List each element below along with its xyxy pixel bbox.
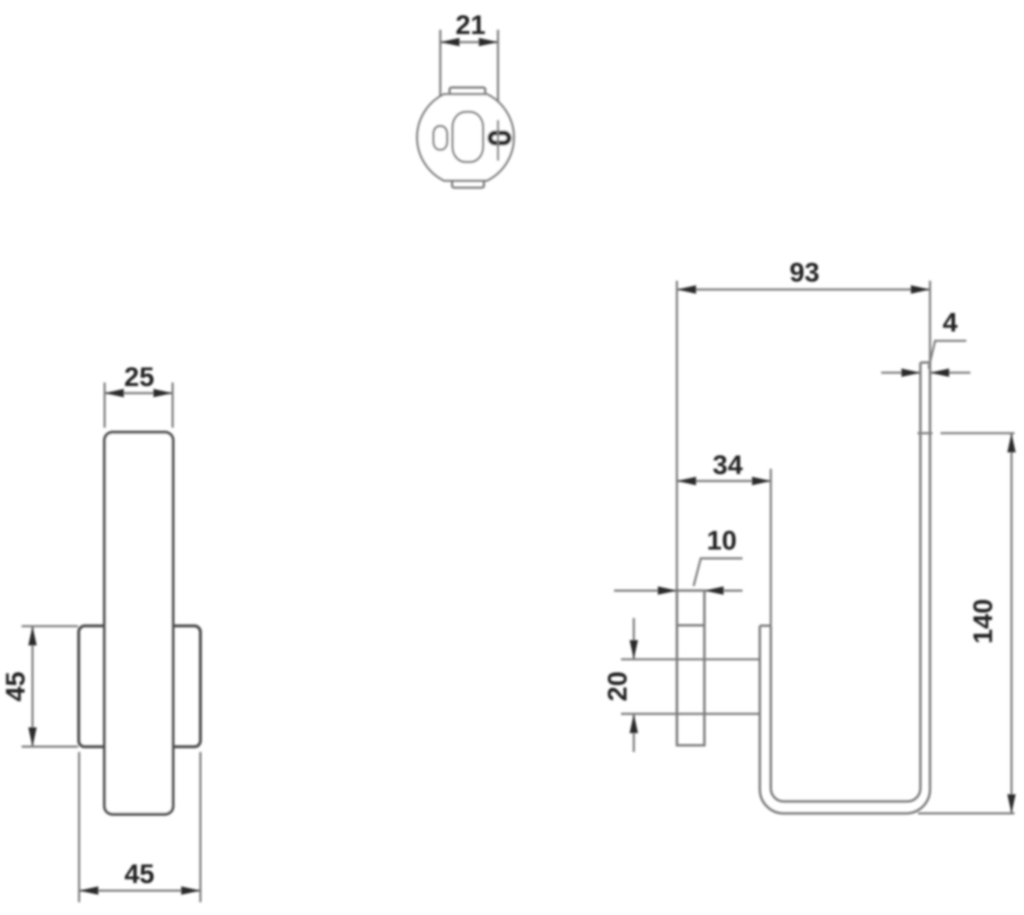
dim 21 extension line left (439, 30, 441, 121)
left wall top cap (760, 625, 771, 627)
dim 10 leader (694, 558, 743, 586)
dim 140 arrow top (1007, 433, 1015, 452)
dim 4 leader (929, 341, 967, 369)
left small oval hole (433, 126, 447, 150)
dim 25 extension line left (103, 383, 105, 428)
dim 45v arrow top (28, 626, 36, 645)
center obround hole (453, 112, 484, 162)
svg-text:45: 45 (1, 671, 31, 701)
dim 20 arrow lower (630, 714, 638, 733)
dim 21 right extension overdraw through pin (497, 120, 499, 161)
dim 10 arrow left (614, 589, 677, 591)
dim 45v extension line bottom (22, 745, 78, 747)
dim 140 extension bottom (918, 812, 1015, 814)
dim 21 dimension line (440, 41, 498, 43)
dim 45b dimension line (79, 889, 200, 891)
dim 45v arrow bottom (28, 727, 36, 746)
dim 21 arrow left (440, 38, 459, 46)
dim 34 arrow right (752, 477, 771, 485)
dim 140 extension top (941, 432, 1015, 434)
dim 20 dimension line lower (633, 714, 635, 752)
dim 34 dimension line (677, 480, 771, 482)
right wall top cap (920, 361, 930, 363)
svg-text:20: 20 (603, 671, 633, 701)
channel outer outline (760, 363, 930, 814)
circle body with flats (417, 94, 514, 180)
dim 21 arrow right (479, 38, 498, 46)
dim 25 arrow right (153, 389, 172, 397)
dim 25 dimension line (105, 392, 173, 394)
dim 34 extension line right (770, 469, 772, 626)
dim 25 extension line right (172, 383, 174, 428)
vertical bar (front plate) (105, 432, 174, 814)
bottom tab on circle (452, 177, 484, 188)
dim 45v dimension line (31, 626, 33, 746)
tab inner line (677, 624, 704, 626)
dim 140 tick across wall (918, 432, 933, 434)
svg-text:140: 140 (968, 599, 998, 644)
dim 45v extension line top (22, 625, 78, 627)
right thick obround (pin) (490, 133, 509, 143)
dim 21 extension line right (497, 30, 499, 161)
channel inner outline (771, 363, 921, 802)
svg-text:34: 34 (713, 450, 743, 480)
dim 34 arrow left (677, 477, 696, 485)
axle bottom line (621, 713, 760, 715)
dim 45b arrow right (181, 886, 200, 894)
left long extension line + tab left edge (676, 281, 678, 746)
axle top line (621, 658, 760, 660)
svg-text:93: 93 (789, 258, 819, 288)
dim 20 dimension line upper (633, 618, 635, 659)
dim 140 dimension line (1010, 433, 1012, 813)
dim 4 arrow left (881, 372, 920, 374)
svg-text:45: 45 (124, 859, 154, 889)
svg-text:21: 21 (455, 10, 485, 40)
dim 140 arrow bottom (1007, 794, 1015, 813)
dim 45b arrow left (79, 886, 98, 894)
roller (wide rounded rect) (79, 626, 201, 747)
dim 4 arrow right (930, 372, 970, 374)
dim 93 arrow right (911, 285, 930, 293)
dim 93 extension (right wall upper) (929, 281, 931, 363)
dim 45b extension line left (78, 752, 80, 902)
top tab on circle (450, 88, 486, 98)
dim 93 arrow left (677, 285, 696, 293)
dim 93 dimension line (677, 288, 930, 290)
tab plate (677, 591, 704, 746)
svg-text:4: 4 (943, 308, 958, 338)
dim 25 arrow left (105, 389, 124, 397)
dim 45b extension line right (199, 752, 201, 902)
dim 20 arrow upper (630, 640, 638, 659)
svg-text:25: 25 (124, 362, 154, 392)
dim 10 arrow right (704, 589, 742, 591)
svg-text:10: 10 (707, 526, 737, 556)
